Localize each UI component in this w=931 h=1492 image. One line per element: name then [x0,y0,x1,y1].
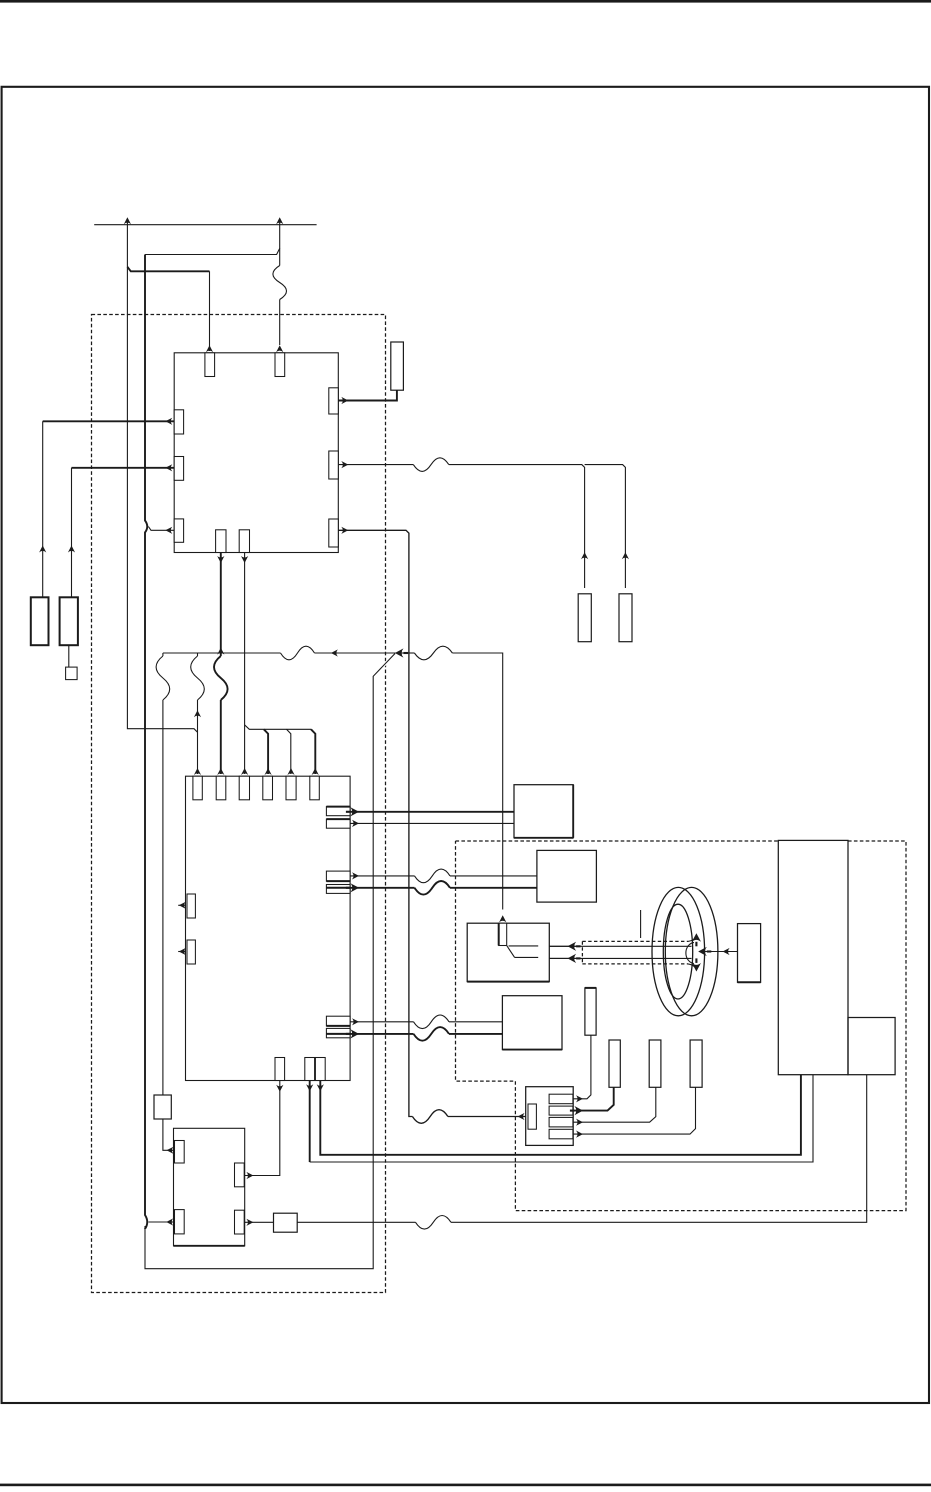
wire IC2 to box B (bold) [350,887,414,889]
IC2 right pin 1b [326,819,350,828]
wire B2 to terminal [68,645,70,667]
IC3 right pin 2 [235,1210,245,1234]
wire IC2 to box B (thin) [350,875,414,877]
switch C contact 2 [515,956,539,958]
IC2 right pin 2b [326,885,350,894]
wire rail drop A [127,219,197,732]
connector CN2 body [526,1087,574,1146]
wire branch to IC1 pin (GND) [148,527,174,531]
IC block IC2 [186,776,351,1080]
wire IC2 to box D (thin) [350,1021,413,1023]
module box D [502,996,562,1050]
wire IC3 to box F [244,1221,273,1223]
IC2 top pin 2 [216,776,226,800]
battery B1 [31,597,49,645]
harness bus wire [163,652,281,654]
toroid core T1 [665,887,718,1015]
top page rule [0,0,931,3]
switch box C [467,923,549,981]
wire VCC to IC1 pin 1 [127,267,209,272]
power rail [94,224,316,226]
wire bundle tail (thin section) [145,654,395,1269]
IC2 top pin 1 [193,776,202,800]
wire IC1 bottom pin2 [244,553,246,775]
wire switch C out 2 [549,957,578,959]
wire CN2 pin2 to J2 (bold) [573,1087,614,1110]
IC3 right pin 1 [235,1163,245,1187]
IC2 left pin 1 arrow [178,904,185,906]
bottom page rule [0,1484,931,1487]
jack J4 [690,1040,702,1087]
switch C common pin [499,923,507,945]
IC2 top pin 3 [239,776,249,800]
IC1 top pin 2 [275,353,285,377]
chassis box E [778,840,848,1074]
wire IC2 to box E (left bold riser) [309,1081,311,1163]
CN2 pin 4 [549,1129,573,1139]
IC1 left pin 1 [174,410,183,434]
wire core to box G [704,951,738,953]
IC block IC3 [174,1128,245,1246]
wire IC2 to IC3 via riser [244,1081,280,1176]
battery B2 [60,597,78,645]
IC2 bottom pin 3 [315,1058,325,1081]
dashed board outline PB-2 [456,841,907,1211]
IC1 left pin 2 [174,457,183,481]
wire CN2 pin3 to J3 [573,1087,656,1122]
wire IC1 to R2 R3 [338,464,413,466]
cable sheath (dashed) [582,941,688,964]
IC1 bottom pin 2 [239,530,249,553]
IC1 right pin 3 [329,519,339,547]
module box B [537,850,597,902]
CN2 pin 1 [549,1094,573,1104]
switch C contact 1 [509,945,539,947]
wire battery B2 to IC1 [71,468,73,598]
IC3 left pin 2 [175,1210,185,1234]
IC2 left pin 2 [187,940,195,964]
wire IC2 to box A (thin) [350,822,514,824]
CN2 pin 2 [549,1106,573,1115]
harness wire 2 (to IC2 pin1) [197,653,199,656]
jack J1 [585,988,596,1035]
terminal lug [66,667,78,680]
IC2 top pin 6 [310,776,320,800]
module box A [514,785,573,838]
IC2 right pin 3b [326,1028,350,1037]
IC3 left pin 1 [175,1141,185,1164]
resistor R2 [578,594,591,642]
wire rail drop B [145,219,280,255]
IC1 left pin 3 [174,519,183,542]
relay RY1 [274,1213,298,1232]
harness wire 1 (to IC3) [162,653,164,656]
IC2 top pin 4 [263,776,273,800]
jack J3 [649,1040,661,1087]
core hole arc [686,942,694,963]
IC1 bottom pin 1 [216,530,226,553]
IC2 top pin 5 [286,776,296,800]
wire IC1 bottom pin1 (bold) to bundle [220,553,222,657]
IC2 left pin 1 [187,894,195,918]
wire switch C out 1 [549,945,578,947]
wire CN2 pin4 to J4 [573,1087,696,1134]
IC1 right pin 2 [329,451,339,479]
chassis box F [848,1018,895,1075]
IC2 right pin 2a [326,871,350,881]
wire IC2 to box D (bold) [350,1033,413,1035]
jack J2 [609,1040,620,1087]
IC2 right pin 1a [326,807,350,816]
wire branch bundle to IC2 pins 4-6 [245,725,311,729]
dashed board outline PB-1 [92,315,386,1293]
IC2 right pin 3a [326,1016,350,1026]
leader line [640,910,642,938]
wire IC1 to CN2 (bold) [338,530,412,1116]
cable loop in core [688,938,696,968]
resistor R1 [391,342,404,390]
IC2 left pin 2 arrow [178,951,185,953]
wire IC2 to box A (bold) [350,811,514,813]
IC block IC1 [174,353,338,553]
wire bundle main vertical [145,255,395,1269]
wire branch to IC3 pin [148,1221,174,1223]
wire IC1 pin to R1 [338,390,397,400]
wire CN2 pin1 to J1 [573,1035,591,1099]
IC2 bottom pin 1 [275,1058,285,1081]
CN2 pin 3 [549,1117,573,1127]
resistor R3 [619,594,632,642]
IC1 right pin 1 [329,388,339,414]
IC1 top pin 1 [205,353,215,377]
cable wires [549,946,691,958]
switch C pole [507,946,515,958]
wire IC2 to box E (right bold) [320,1075,801,1155]
IC2 bottom pin 2 [305,1058,315,1081]
clamp box G [738,924,761,983]
ferrite bead FB1 [154,1095,171,1119]
CN2 key [528,1104,536,1129]
wire battery B1 to IC1 [42,421,44,597]
